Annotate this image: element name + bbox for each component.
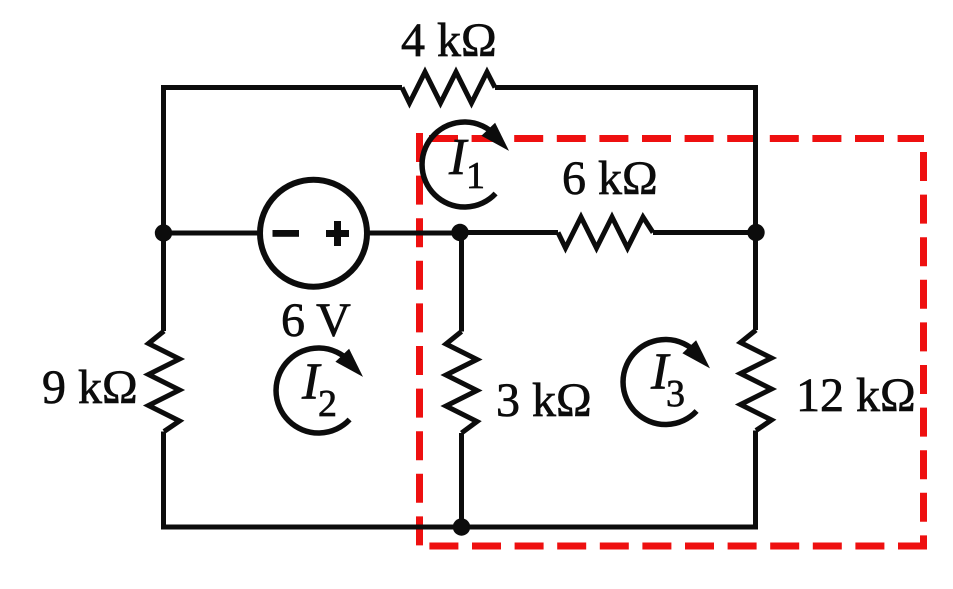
mesh arrow I3 — [623, 340, 710, 425]
resistor 4 kOhm — [402, 72, 495, 103]
dashed boundary (red supermesh box) — [419, 133, 927, 549]
wire: middle left (node to source) — [164, 231, 259, 236]
dashed box bottom edge — [419, 543, 927, 550]
dashed box top edge — [429, 135, 924, 142]
svg-text:6 V: 6 V — [281, 294, 351, 347]
svg-text:9 kΩ: 9 kΩ — [42, 361, 138, 414]
svg-text:3 kΩ: 3 kΩ — [496, 374, 592, 427]
wire: middle vertical lower — [459, 433, 464, 527]
wire: left bottom — [164, 431, 756, 528]
dashed box right edge — [920, 152, 927, 546]
wire: source to middle node — [370, 231, 461, 236]
resistor 12 kOhm — [741, 330, 772, 431]
voltage source plus sign — [326, 221, 349, 246]
mesh arrow I1 — [422, 122, 509, 207]
resistor 6 kOhm — [558, 217, 653, 248]
wire: middle vertical upper — [459, 233, 464, 332]
wire: top side — [164, 88, 403, 234]
resistor 3 kOhm — [446, 332, 477, 434]
svg-text:1: 1 — [466, 155, 485, 197]
wire: top right segment — [495, 88, 756, 331]
node C (right middle) — [747, 224, 764, 241]
svg-text:2: 2 — [318, 383, 337, 425]
mesh arrow I2 — [276, 348, 363, 433]
svg-text:12 kΩ: 12 kΩ — [796, 369, 916, 422]
voltage source minus sign — [273, 230, 300, 237]
node B (center middle) — [451, 224, 468, 241]
svg-text:6 kΩ: 6 kΩ — [562, 152, 658, 205]
svg-text:3: 3 — [666, 373, 685, 415]
wire: middle node to 6k — [460, 230, 558, 235]
wire: left side lower — [161, 233, 166, 331]
wire: 6k to right node — [653, 230, 756, 235]
svg-text:4 kΩ: 4 kΩ — [401, 14, 497, 67]
voltage source V1 circle — [260, 180, 367, 287]
node D (bottom) — [453, 518, 470, 535]
node A (left middle) — [155, 224, 172, 241]
resistor 9 kOhm — [149, 331, 180, 432]
dashed box left edge — [416, 133, 423, 549]
